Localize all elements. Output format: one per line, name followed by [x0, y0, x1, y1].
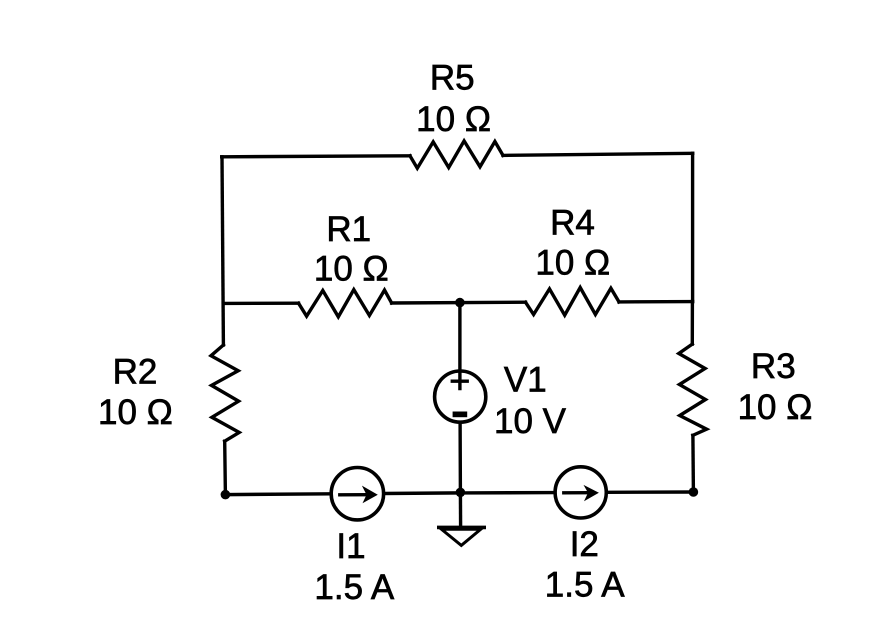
wire middle net left segment: [223, 302, 298, 306]
svg-text:1.5 A: 1.5 A: [314, 568, 394, 607]
wire top net right segment: [503, 153, 693, 155]
I2 arrow shaft: [564, 491, 588, 494]
svg-text:V1: V1: [504, 361, 547, 400]
resistor R2: [211, 345, 239, 441]
wire V1 bottom branch: [458, 422, 462, 492]
wire right vertical upper (top corner to middle wire): [691, 153, 694, 301]
svg-text:R1: R1: [326, 210, 371, 249]
junction node dot (bottom center): [456, 488, 466, 498]
resistor R1: [299, 290, 392, 317]
svg-text:I1: I1: [336, 527, 365, 566]
ground symbol top bar: [439, 526, 484, 530]
I2 arrow head: [584, 485, 599, 501]
wire V1 top branch (middle node into V1 plus): [458, 303, 461, 389]
svg-text:R3: R3: [751, 347, 796, 386]
current source I1 circle: [331, 468, 383, 520]
voltage source V1 circle: [435, 371, 486, 422]
junction node dot (bottom left): [221, 490, 231, 500]
wire middle net center segment (R1 to R4 through node): [392, 301, 526, 305]
current source I2 circle: [555, 467, 606, 518]
svg-text:10 Ω: 10 Ω: [416, 100, 491, 139]
wire right vertical middle (middle wire to R3): [691, 302, 695, 345]
wire left vertical upper (top corner to R2): [222, 157, 223, 345]
svg-text:R5: R5: [430, 59, 475, 98]
wire bottom net: center node to I2: [460, 491, 555, 495]
V1 plus sign horizontal bar: [452, 380, 467, 383]
wire middle net right segment: [619, 300, 693, 304]
resistor R3: [679, 344, 707, 435]
ground symbol triangle: [442, 529, 481, 545]
wire bottom net: I1 to center node: [384, 491, 461, 495]
svg-text:10 Ω: 10 Ω: [535, 244, 610, 283]
I1 arrow shaft: [340, 493, 367, 496]
wire right vertical lower (R3 to bottom node): [691, 435, 695, 492]
wire bottom net: left node to I1: [225, 492, 331, 496]
svg-text:R4: R4: [550, 203, 595, 242]
junction node dot (bottom right): [689, 487, 699, 497]
V1 minus sign bar: [453, 412, 468, 418]
wire left vertical lower (R2 to bottom node): [223, 441, 227, 494]
resistor R5: [410, 141, 503, 168]
junction node dot (middle net / V1 top): [455, 298, 465, 308]
I1 arrow head: [362, 486, 378, 504]
svg-text:R2: R2: [113, 352, 158, 391]
wire bottom net: I2 to right node: [606, 490, 693, 494]
svg-text:10 Ω: 10 Ω: [98, 393, 173, 432]
svg-text:10 V: 10 V: [494, 402, 567, 441]
resistor R4: [526, 288, 620, 316]
svg-text:10 Ω: 10 Ω: [314, 250, 389, 289]
ground stub wire: [459, 492, 463, 526]
svg-text:I2: I2: [570, 525, 599, 564]
svg-text:1.5 A: 1.5 A: [545, 566, 625, 605]
wire top net left segment: [222, 156, 410, 157]
svg-text:10 Ω: 10 Ω: [738, 388, 813, 427]
